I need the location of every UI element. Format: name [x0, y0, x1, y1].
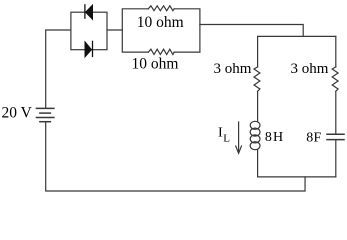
svg-text:10 ohm: 10 ohm: [132, 55, 179, 72]
svg-text:8: 8: [265, 130, 272, 145]
svg-text:F: F: [314, 130, 322, 145]
svg-text:10 ohm: 10 ohm: [137, 14, 184, 31]
svg-text:20 V: 20 V: [2, 105, 33, 122]
svg-text:I: I: [218, 126, 223, 141]
svg-text:8: 8: [306, 130, 313, 145]
svg-text:3 ohm: 3 ohm: [291, 61, 329, 77]
svg-text:L: L: [223, 132, 230, 144]
svg-text:3 ohm: 3 ohm: [214, 61, 252, 77]
svg-text:H: H: [273, 130, 283, 145]
